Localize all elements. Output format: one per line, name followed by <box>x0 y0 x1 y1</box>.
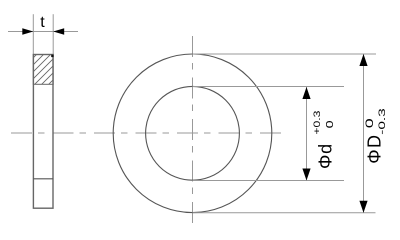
svg-text:0: 0 <box>324 120 336 128</box>
svg-text:+0.3: +0.3 <box>312 111 322 135</box>
svg-text:ΦD: ΦD <box>365 133 385 163</box>
svg-text:0: 0 <box>364 118 376 128</box>
svg-text:t: t <box>40 14 45 31</box>
svg-text:-0.3: -0.3 <box>377 108 387 135</box>
svg-text:Φd: Φd <box>316 143 336 169</box>
